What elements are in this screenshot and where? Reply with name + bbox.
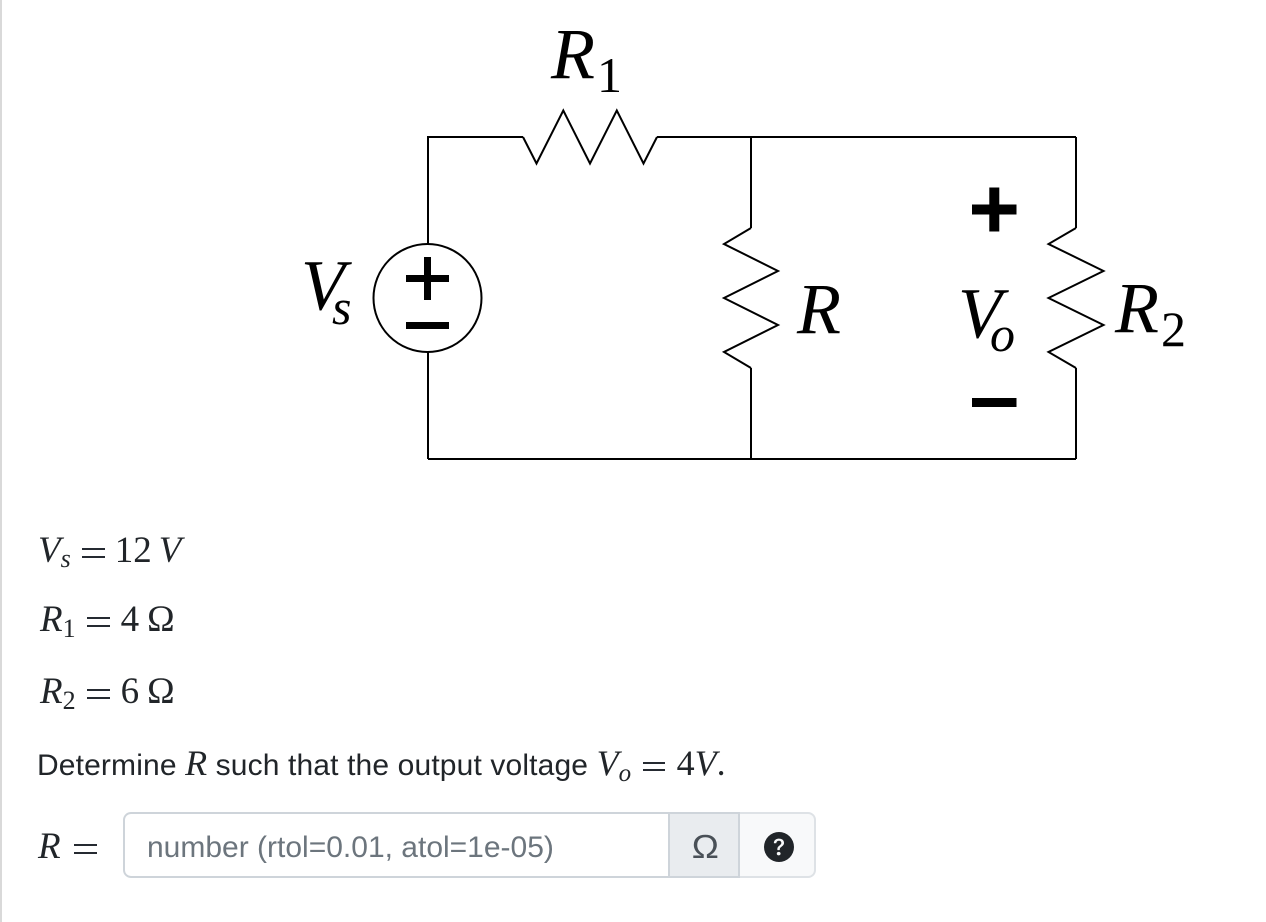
voltage source - polarity mark bbox=[406, 322, 449, 329]
circuit schematic bbox=[0, 0, 1266, 500]
wire: node B to bottom of R2 branch bbox=[751, 458, 1076, 460]
question-circle icon bbox=[764, 832, 794, 862]
given value line: R2 = 6 ohm bbox=[40, 673, 175, 713]
svg-text:R: R bbox=[796, 269, 841, 349]
output voltage - polarity mark bbox=[972, 398, 1017, 407]
given value line: R1 = 4 ohm bbox=[40, 601, 175, 641]
voltage source Vs (circle) bbox=[374, 244, 482, 352]
label Vo bbox=[958, 274, 1015, 363]
output voltage + polarity mark bbox=[972, 188, 1017, 232]
wire: node A down to resistor R top lead bbox=[750, 137, 752, 228]
wire: R1 right lead to node A bbox=[657, 136, 751, 138]
voltage source + polarity mark bbox=[406, 257, 449, 300]
wire: source + terminal up and right to R1 left lead bbox=[428, 137, 523, 244]
left page border bbox=[0, 0, 2, 922]
help button bbox=[740, 812, 816, 878]
answer label: R = bbox=[38, 828, 97, 865]
wire: node A to top of R2 branch bbox=[751, 136, 1076, 138]
svg-text:R: R bbox=[550, 14, 595, 94]
wire: R2 bottom lead to bottom-right corner bbox=[1075, 368, 1077, 459]
svg-text:1: 1 bbox=[597, 47, 622, 103]
wire: bottom rail, left corner to node B bbox=[428, 458, 751, 460]
svg-text:R: R bbox=[1114, 268, 1159, 348]
wire: top-right corner down to R2 top lead bbox=[1075, 137, 1077, 228]
resistor R1 bbox=[523, 111, 657, 164]
svg-text:2: 2 bbox=[1161, 301, 1186, 357]
given value line: Vs = 12 V bbox=[38, 532, 181, 572]
svg-text:o: o bbox=[990, 306, 1015, 362]
answer input group bbox=[123, 812, 816, 878]
unit addon (ohm) bbox=[670, 812, 740, 878]
question line bbox=[37, 745, 726, 786]
wire: resistor R bottom lead to node B bbox=[750, 368, 752, 459]
label Vs bbox=[301, 246, 352, 336]
wire: source - terminal down to bottom-left corner bbox=[427, 352, 429, 459]
resistor R bbox=[724, 228, 778, 368]
resistor R2 bbox=[1049, 228, 1104, 368]
number input field bbox=[123, 812, 670, 878]
label R2 bbox=[1114, 268, 1186, 357]
label R1 bbox=[550, 14, 622, 103]
svg-text:s: s bbox=[332, 279, 351, 335]
